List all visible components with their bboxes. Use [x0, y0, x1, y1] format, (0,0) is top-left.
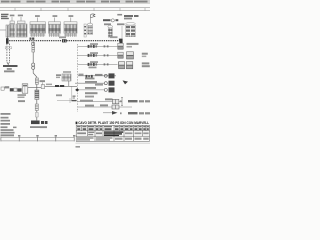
wire row 4 — [78, 73, 116, 79]
trunk wire left — [28, 87, 41, 89]
border line below title block — [76, 142, 151, 144]
connector H small — [88, 23, 93, 26]
OBD connector box — [22, 84, 28, 93]
inline connector on drop — [32, 46, 35, 52]
module D label — [35, 15, 40, 17]
module E label — [53, 15, 58, 17]
inline splice circles — [32, 63, 35, 66]
backbone drop center — [33, 42, 37, 121]
text above fuse box J — [124, 15, 139, 19]
module K label above — [63, 71, 71, 73]
scale bar — [1, 134, 76, 141]
inline connector 3 — [35, 104, 38, 110]
module E — [49, 22, 61, 37]
wire row 1 — [78, 43, 139, 49]
gray label above bus center — [59, 36, 66, 38]
diagnostic chain left — [1, 87, 4, 90]
wire into connector A — [0, 29, 6, 31]
zone ticks — [15, 8, 145, 11]
twisted pair drop left — [6, 44, 8, 62]
wire row 2 — [78, 52, 148, 59]
connector A (narrow) — [6, 25, 9, 37]
module F — [64, 22, 77, 37]
wire row 3 — [78, 61, 150, 69]
small note right of bus start — [18, 100, 25, 102]
bus tap circle — [31, 42, 34, 45]
connector G (narrow) — [84, 24, 86, 37]
connector B — [10, 24, 16, 37]
flag label — [91, 14, 95, 18]
frame rule top — [0, 7, 150, 9]
drain wire down — [71, 86, 73, 100]
connector I column — [108, 25, 113, 28]
shield band — [55, 85, 59, 87]
module K above trunk — [62, 74, 71, 81]
jog box — [41, 85, 44, 89]
module F label — [69, 15, 74, 17]
wire row 6 — [75, 87, 114, 98]
title block row3 content — [77, 137, 149, 140]
terminal module dark — [31, 121, 40, 125]
title block row2 content — [77, 132, 102, 136]
note text top-left — [1, 14, 9, 19]
header band — [0, 0, 150, 3]
title block table — [76, 125, 149, 141]
notes bottom-left — [1, 113, 48, 134]
module D — [30, 22, 45, 37]
label — [40, 80, 46, 82]
bus end junction right — [119, 39, 123, 44]
wire row 7 — [78, 97, 151, 105]
connector C1 label — [10, 15, 23, 17]
svg-text:CAVO DETR. PLANT 150 PS IDN CO: CAVO DETR. PLANT 150 PS IDN CON MARVELL — [78, 121, 150, 125]
wire row 9 — [103, 111, 150, 115]
bus corner junction left — [6, 38, 9, 44]
inline connector 2 — [35, 78, 38, 84]
frame rule bottom — [0, 10, 150, 12]
wire stub — [121, 26, 123, 39]
splice marks near drain — [73, 96, 76, 97]
connector C — [17, 24, 28, 37]
backbone dashed right — [76, 44, 78, 112]
CAN bus (dashed trunk) — [7, 40, 121, 42]
shield connector dark — [35, 90, 39, 99]
fuse box J — [126, 23, 136, 37]
junction text on bus left — [30, 38, 32, 40]
trunk wire right — [45, 85, 78, 87]
text labels center-top — [103, 19, 118, 21]
footer drawing title — [76, 122, 78, 125]
splice label block left — [3, 65, 18, 67]
wire row 8 — [78, 104, 132, 109]
wire row 5 — [75, 80, 128, 85]
title block row1 content — [77, 126, 149, 127]
